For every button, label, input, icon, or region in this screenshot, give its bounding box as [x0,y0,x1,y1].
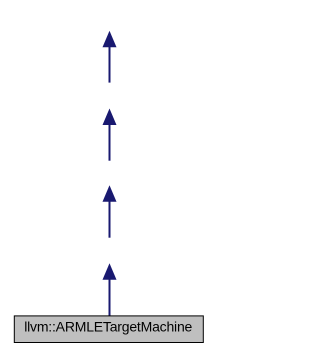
node box llvm::ARMLETargetMachine [14,316,203,343]
arrow 1 (topmost inheritance edge) [103,31,117,83]
arrow 4 (edge into llvm::ARMLETargetMachine) [103,263,117,315]
svg-text:llvm::ARMLETargetMachine: llvm::ARMLETargetMachine [24,319,192,335]
arrow 3 [103,185,117,237]
inheritance graph for llvm::ARMLETargetMachine [0,0,219,349]
arrow 2 [103,109,117,161]
